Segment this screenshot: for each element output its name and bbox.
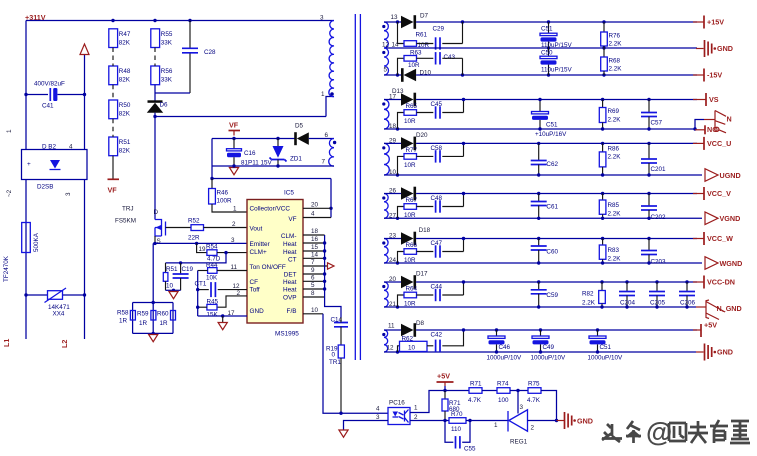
resistor R56 33K xyxy=(151,66,160,85)
svg-text:R46: R46 xyxy=(217,190,229,197)
svg-text:C57: C57 xyxy=(651,120,663,127)
svg-text:C46: C46 xyxy=(499,344,511,351)
port GND xyxy=(557,420,565,422)
resistor R50 82K xyxy=(109,100,118,119)
winding aux 6-7 xyxy=(329,139,334,167)
svg-text:Heat: Heat xyxy=(283,249,297,256)
resistor R52 22R xyxy=(191,225,204,231)
svg-text:D5: D5 xyxy=(295,123,304,130)
ground xyxy=(229,168,238,175)
wire R70 to REG1 xyxy=(466,420,508,422)
resistor R73 680 vertical xyxy=(444,391,446,400)
svg-text:VF: VF xyxy=(288,216,296,223)
wire pin3 to ground xyxy=(344,421,389,431)
svg-text:0: 0 xyxy=(332,352,336,359)
svg-text:10K: 10K xyxy=(206,275,218,282)
pin 5 xyxy=(303,288,325,290)
svg-text:Heat: Heat xyxy=(283,241,297,248)
svg-text:+: + xyxy=(27,161,31,168)
wire +5V rail xyxy=(416,329,697,331)
port VF bottom of ladder xyxy=(112,156,114,179)
svg-text:Heat: Heat xyxy=(283,279,297,286)
pin 20 xyxy=(303,207,331,209)
svg-text:7: 7 xyxy=(322,159,326,166)
pin 7 xyxy=(303,265,328,267)
wire return rail xyxy=(384,217,702,219)
snubber R67 10R + C48 xyxy=(396,217,399,220)
resistor R55 33K xyxy=(151,29,160,48)
shunt regulator REG1 xyxy=(507,411,509,432)
wire -15V rail xyxy=(416,74,697,76)
svg-text:FS5KM: FS5KM xyxy=(115,218,136,225)
svg-text:D7: D7 xyxy=(420,13,429,20)
svg-text:12: 12 xyxy=(387,345,395,352)
svg-text:R66: R66 xyxy=(406,242,418,249)
svg-text:33K: 33K xyxy=(161,77,173,84)
svg-text:R86: R86 xyxy=(608,146,620,153)
resistor R85 2.2K xyxy=(601,192,604,195)
svg-text:C58: C58 xyxy=(431,145,443,152)
svg-text:8: 8 xyxy=(311,290,315,297)
svg-text:DET: DET xyxy=(284,272,297,279)
snubber R64 10R + C44 xyxy=(396,305,399,308)
svg-text:+5V: +5V xyxy=(704,321,717,330)
resistor R83 2.2K xyxy=(601,237,604,240)
svg-text:VF: VF xyxy=(108,186,118,195)
svg-text:4: 4 xyxy=(69,144,73,151)
svg-text:1: 1 xyxy=(321,91,325,98)
wire return rail xyxy=(384,262,702,264)
wire D5 to pin6 xyxy=(309,138,334,140)
pin 16 xyxy=(303,242,325,244)
resistor R75 4.7K xyxy=(510,390,528,392)
svg-text:REG1: REG1 xyxy=(510,439,528,446)
svg-text:C204: C204 xyxy=(620,300,636,307)
svg-text:D20: D20 xyxy=(416,132,428,139)
svg-text:L1: L1 xyxy=(2,339,11,347)
svg-text:C59: C59 xyxy=(546,292,558,299)
wire pin19 xyxy=(217,252,247,254)
svg-text:C51: C51 xyxy=(541,26,553,33)
wire pin11 R44 xyxy=(208,268,217,274)
svg-text:VF: VF xyxy=(229,121,239,130)
wire pin3 emitter sense xyxy=(153,242,247,244)
svg-text:2: 2 xyxy=(531,425,535,432)
snubber R61 10R + C29 xyxy=(396,20,399,23)
svg-text:R70: R70 xyxy=(451,411,463,418)
snubber R65 10R + C45 xyxy=(396,127,399,130)
svg-text:R77: R77 xyxy=(406,147,418,154)
wire drain net to primary pin 1 xyxy=(155,116,326,118)
svg-text:C48: C48 xyxy=(431,195,443,202)
svg-text:1: 1 xyxy=(494,422,498,429)
svg-text:100R: 100R xyxy=(217,198,233,205)
svg-text:1R: 1R xyxy=(160,320,169,327)
svg-text:C50: C50 xyxy=(541,49,553,56)
port -15V xyxy=(693,74,704,76)
svg-text:Vout: Vout xyxy=(250,226,263,233)
svg-text:10R: 10R xyxy=(404,162,416,169)
wire VCC_W rail xyxy=(416,238,697,240)
resistor R74 100 xyxy=(482,390,497,392)
capacitor C51 110uP/15V xyxy=(548,22,550,33)
svg-text:5: 5 xyxy=(384,67,388,74)
snubber R62 10 + C42 xyxy=(396,350,399,353)
pin 10 xyxy=(303,313,323,315)
resistor 500KA xyxy=(25,179,27,181)
svg-text:D8: D8 xyxy=(416,320,425,327)
capacitor C57 xyxy=(647,98,650,101)
wire pin13 jog xyxy=(217,296,247,307)
svg-text:1000uP/10V: 1000uP/10V xyxy=(487,355,522,362)
snubber R66 10R + C47 xyxy=(396,261,399,264)
pin 4 xyxy=(303,217,331,219)
svg-text:2.2K: 2.2K xyxy=(608,211,622,218)
svg-text:+10uP/16V: +10uP/16V xyxy=(535,131,567,138)
svg-text:R48: R48 xyxy=(119,68,131,75)
svg-text:R61: R61 xyxy=(416,32,428,39)
svg-text:MS1995: MS1995 xyxy=(275,331,299,338)
capacitor C16 81P11 15V xyxy=(233,139,235,149)
resistor R51 82K xyxy=(109,137,118,156)
pin 8 xyxy=(303,296,325,298)
svg-text:TR1: TR1 xyxy=(329,359,341,366)
wire C28 to D6 node xyxy=(155,92,190,94)
resistor R46 100R xyxy=(211,179,213,189)
wire R56 to D6 xyxy=(154,85,156,101)
diode (secondary) xyxy=(384,193,401,195)
svg-text:R47: R47 xyxy=(119,31,131,38)
svg-text:C205: C205 xyxy=(650,300,666,307)
svg-text:C203: C203 xyxy=(651,259,667,266)
svg-text:2.2K: 2.2K xyxy=(608,117,622,124)
svg-text:C16: C16 xyxy=(244,150,256,157)
svg-text:R56: R56 xyxy=(161,68,173,75)
shunt resistor rails xyxy=(133,302,173,304)
wire cathode xyxy=(528,420,557,422)
port +15V xyxy=(693,21,704,23)
svg-text:C41: C41 xyxy=(42,103,54,110)
svg-text:4.7K: 4.7K xyxy=(468,397,482,404)
wire VCC-DN rail xyxy=(416,281,697,283)
svg-text:1: 1 xyxy=(6,129,13,133)
resistor R86 2.2K xyxy=(601,142,604,145)
winding secondary 11-12 xyxy=(384,330,388,352)
capacitor C206 xyxy=(685,280,688,283)
svg-text:1: 1 xyxy=(414,405,418,412)
winding secondary 23-24 xyxy=(384,239,388,264)
svg-text:D: D xyxy=(154,209,159,216)
winding secondary 13-12 xyxy=(384,22,388,48)
wire VCC_U rail xyxy=(416,142,697,144)
op-amp U1 IC5 MS1995 controller xyxy=(247,200,303,324)
wire right pin bus xyxy=(324,235,326,297)
svg-text:NO: NO xyxy=(707,125,718,134)
wire return rail xyxy=(384,174,702,176)
resistor R19 xyxy=(338,345,344,358)
capacitor C50 110uP/15V xyxy=(548,48,550,56)
resistor R70 110 xyxy=(449,418,466,424)
svg-text:15: 15 xyxy=(311,244,319,251)
svg-text:VCC_V: VCC_V xyxy=(707,189,731,198)
diode D8 xyxy=(384,329,401,331)
svg-text:R76: R76 xyxy=(609,33,621,40)
svg-text:CT1: CT1 xyxy=(195,281,207,288)
svg-text:10: 10 xyxy=(166,283,174,290)
svg-text:13: 13 xyxy=(391,14,399,21)
svg-text:82K: 82K xyxy=(119,111,131,118)
svg-text:Ton ON/OFF: Ton ON/OFF xyxy=(250,264,286,271)
svg-text:3: 3 xyxy=(520,404,524,411)
svg-text:R51: R51 xyxy=(119,139,131,146)
svg-text:D6: D6 xyxy=(160,102,169,109)
svg-text:15K: 15K xyxy=(207,312,219,319)
wire return rail xyxy=(384,128,696,130)
svg-text:D13: D13 xyxy=(392,88,404,95)
svg-text:ZD1: ZD1 xyxy=(290,156,302,163)
svg-text:4.7K: 4.7K xyxy=(527,397,541,404)
port GND xyxy=(696,351,704,353)
winding secondary 26-27 xyxy=(384,194,388,219)
svg-text:19: 19 xyxy=(199,246,207,253)
svg-text:C51: C51 xyxy=(546,122,558,129)
port +5V xyxy=(693,329,701,331)
winding secondary 29-10 xyxy=(384,143,389,175)
diode D10 xyxy=(384,74,401,76)
svg-text:6: 6 xyxy=(311,275,315,282)
diode D13 xyxy=(384,99,401,101)
svg-text:XX4: XX4 xyxy=(53,311,65,318)
winding secondary 20-21 xyxy=(384,282,388,307)
svg-text:C28: C28 xyxy=(204,49,216,56)
svg-text:CF: CF xyxy=(250,279,259,286)
svg-text:R52: R52 xyxy=(188,218,200,225)
svg-text:82K: 82K xyxy=(119,77,131,84)
svg-text:10: 10 xyxy=(311,307,319,314)
svg-text:CLM+: CLM+ xyxy=(250,249,267,256)
svg-text:1000uP/10V: 1000uP/10V xyxy=(588,355,623,362)
zener ZD1 xyxy=(277,139,279,147)
winding secondary 14-5 xyxy=(384,48,389,75)
capacitor C60 xyxy=(537,237,540,240)
svg-text:1R: 1R xyxy=(119,318,128,325)
diode D20 xyxy=(384,142,401,144)
svg-text:R62: R62 xyxy=(402,336,414,343)
svg-text:7: 7 xyxy=(311,259,315,266)
resistor R48 82K xyxy=(109,66,118,85)
wire source xyxy=(154,236,156,243)
svg-text:R60: R60 xyxy=(157,311,169,318)
wire return rail xyxy=(384,306,696,308)
wire right vertical L2 branch xyxy=(84,55,86,149)
svg-text:C51: C51 xyxy=(600,344,612,351)
svg-text:C19: C19 xyxy=(182,266,194,273)
wire return rail xyxy=(384,351,696,353)
svg-text:400V/82uF: 400V/82uF xyxy=(34,81,65,88)
node ON/OFF port arrow xyxy=(328,263,335,269)
svg-text:2.2K: 2.2K xyxy=(609,41,623,48)
svg-text:PC16: PC16 xyxy=(389,400,405,407)
svg-text:N: N xyxy=(727,115,732,124)
svg-text:R59: R59 xyxy=(137,311,149,318)
svg-text:14: 14 xyxy=(392,41,400,48)
wire pin10 to opto xyxy=(323,314,388,413)
svg-text:Heat: Heat xyxy=(283,287,297,294)
svg-text:10R: 10R xyxy=(404,301,416,308)
wire VF rail to IC VF pins xyxy=(212,178,331,180)
wire pin2 Vout xyxy=(204,227,248,229)
svg-text:R44: R44 xyxy=(206,262,218,269)
svg-text:VS: VS xyxy=(709,95,719,104)
wire C41 row xyxy=(26,94,48,96)
pin 15 xyxy=(303,250,325,252)
wire +15V rail xyxy=(416,21,697,23)
svg-text:IC5: IC5 xyxy=(284,190,294,197)
svg-text:5: 5 xyxy=(311,282,315,289)
svg-text:11: 11 xyxy=(388,323,395,330)
svg-text:VGND: VGND xyxy=(720,214,741,223)
snubber R63 10R + C43 xyxy=(396,73,399,76)
pin 18 xyxy=(303,234,325,236)
port VCC-DN xyxy=(693,281,704,283)
diode D17 xyxy=(384,281,401,283)
wire VCC_V rail xyxy=(416,193,697,195)
wire drain xyxy=(154,117,156,220)
svg-text:C47: C47 xyxy=(431,240,443,247)
svg-text:C42: C42 xyxy=(431,332,443,339)
svg-text:9: 9 xyxy=(311,267,315,274)
wire left vertical L1 branch xyxy=(25,21,27,150)
svg-text:R68: R68 xyxy=(609,58,621,65)
svg-text:C44: C44 xyxy=(431,284,443,291)
svg-text:TRJ: TRJ xyxy=(122,206,134,213)
svg-text:C43: C43 xyxy=(444,54,456,61)
svg-text:C45: C45 xyxy=(431,101,443,108)
resistor R68 2.2K xyxy=(603,48,605,57)
svg-text:Toff: Toff xyxy=(250,287,260,294)
svg-text:20: 20 xyxy=(311,202,319,209)
svg-text:C29: C29 xyxy=(433,26,445,33)
svg-text:R69: R69 xyxy=(608,108,620,115)
svg-text:TF2470K: TF2470K xyxy=(3,255,10,282)
svg-text:VCC_W: VCC_W xyxy=(707,234,733,243)
watermark 头条@匹夫有重 xyxy=(602,421,641,443)
svg-text:10R: 10R xyxy=(404,212,416,219)
wire snubber gnd rail xyxy=(166,289,181,291)
port VCC_W xyxy=(693,238,704,240)
svg-text:2: 2 xyxy=(232,221,236,228)
capacitor C201 xyxy=(647,142,650,145)
svg-text:GND: GND xyxy=(577,417,593,426)
port VS xyxy=(693,99,706,101)
svg-text:R51: R51 xyxy=(166,266,178,273)
resistor R69 2.2K xyxy=(601,98,604,101)
svg-text:16: 16 xyxy=(311,236,319,243)
svg-text:10R: 10R xyxy=(408,62,420,69)
svg-text:4: 4 xyxy=(376,406,380,413)
svg-text:12: 12 xyxy=(233,283,241,290)
wire CLM+ filter branch xyxy=(166,253,227,263)
wire VS rail xyxy=(416,99,697,101)
port VCC_V xyxy=(693,193,704,195)
svg-text:10: 10 xyxy=(408,345,416,352)
capacitor C204 xyxy=(625,280,628,283)
svg-text:C206: C206 xyxy=(680,300,696,307)
svg-text:R63: R63 xyxy=(410,50,422,57)
svg-text:R71: R71 xyxy=(470,381,482,388)
wire gate xyxy=(166,227,192,229)
ground xyxy=(222,316,224,323)
diode D6 xyxy=(148,100,163,103)
svg-text:Emitter: Emitter xyxy=(250,241,271,248)
svg-text:2.2K: 2.2K xyxy=(582,300,596,307)
svg-text:500KA: 500KA xyxy=(33,232,40,252)
svg-text:VCC_U: VCC_U xyxy=(707,139,731,148)
port VCC_U xyxy=(693,142,704,144)
svg-text:1R: 1R xyxy=(139,320,148,327)
ground xyxy=(339,430,348,437)
diode D18 xyxy=(384,238,401,240)
svg-text:R45: R45 xyxy=(207,299,219,306)
svg-text:12: 12 xyxy=(382,41,390,48)
svg-text:R55: R55 xyxy=(161,31,173,38)
svg-text:D18: D18 xyxy=(419,227,431,234)
svg-text:R54: R54 xyxy=(206,244,218,251)
capacitor C51b +10uP/16V xyxy=(539,100,541,112)
svg-text:R85: R85 xyxy=(608,202,620,209)
capacitor C49 1000uP/10V xyxy=(539,328,542,331)
svg-text:6: 6 xyxy=(325,132,329,139)
port GND xyxy=(696,48,704,50)
svg-text:VCC-DN: VCC-DN xyxy=(707,278,735,287)
svg-text:14: 14 xyxy=(311,252,319,259)
svg-text:F/B: F/B xyxy=(287,308,297,315)
svg-text:GND: GND xyxy=(717,44,733,53)
svg-text:R67: R67 xyxy=(406,197,418,204)
pin 6 xyxy=(303,280,325,282)
capacitor C28 xyxy=(188,19,191,22)
wire gnd column xyxy=(197,271,199,317)
svg-text:2.2K: 2.2K xyxy=(609,66,623,73)
svg-text:82K: 82K xyxy=(119,148,131,155)
pin 9 xyxy=(303,273,325,275)
svg-text:R50: R50 xyxy=(119,102,131,109)
svg-text:C55: C55 xyxy=(464,446,476,453)
resistor R51 10 xyxy=(165,263,167,273)
wire ladder column dashes xyxy=(112,48,114,138)
svg-text:C49: C49 xyxy=(543,344,555,351)
svg-text:110uP/15V: 110uP/15V xyxy=(541,67,572,74)
svg-text:CLM-: CLM- xyxy=(281,233,297,240)
port VGND xyxy=(701,217,703,219)
svg-text:GND: GND xyxy=(717,348,733,357)
svg-text:18: 18 xyxy=(311,228,319,235)
svg-text:100: 100 xyxy=(498,397,509,404)
svg-text:22R: 22R xyxy=(188,235,200,242)
capacitor C19 xyxy=(180,263,182,274)
winding secondary 17-18 xyxy=(384,100,389,130)
svg-text:D2SB: D2SB xyxy=(37,184,53,191)
resistor R71 4.7K xyxy=(445,390,469,392)
svg-text:C62: C62 xyxy=(546,161,558,168)
svg-text:-15V: -15V xyxy=(707,71,722,80)
port UGND xyxy=(701,174,703,176)
diode D7 xyxy=(384,21,401,23)
svg-text:2.2K: 2.2K xyxy=(608,256,622,263)
svg-text:1000uP/10V: 1000uP/10V xyxy=(531,355,566,362)
svg-text:N_GND: N_GND xyxy=(717,304,742,313)
resistor R76 2.2K xyxy=(603,22,605,32)
